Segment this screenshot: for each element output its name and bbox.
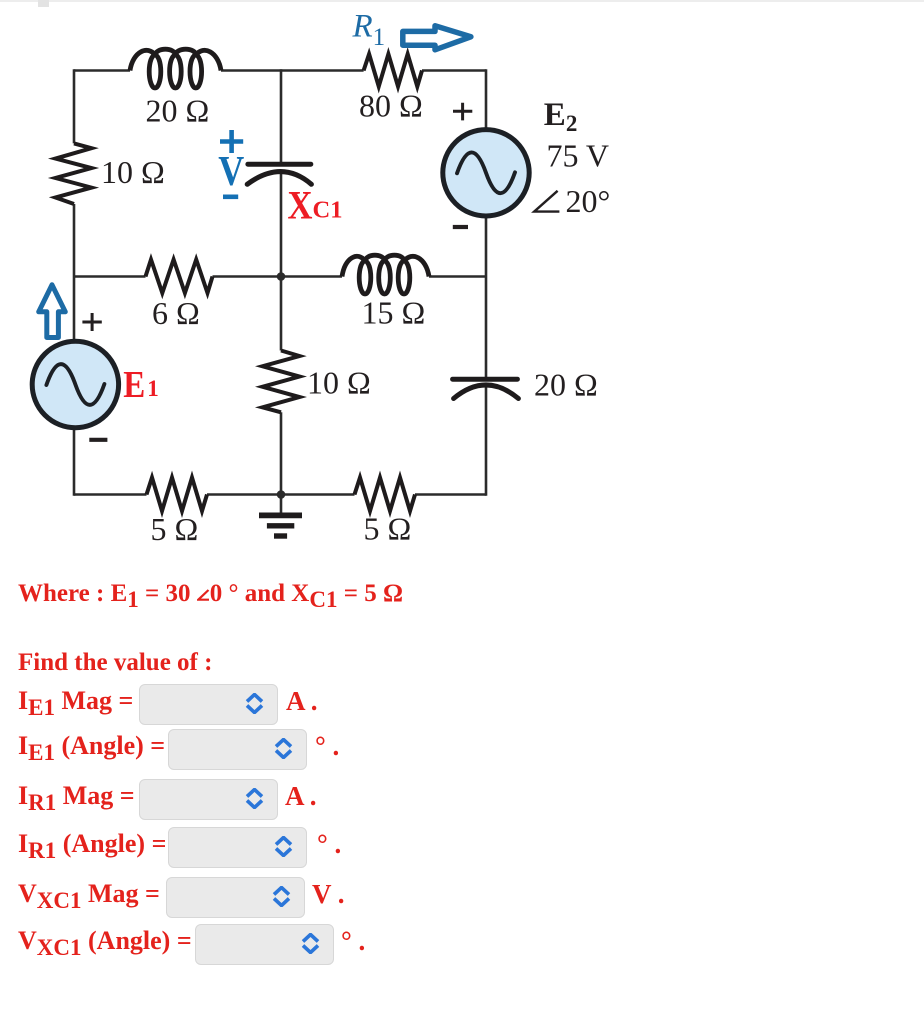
svg-text:10 Ω: 10 Ω <box>307 365 371 401</box>
svg-text:E2: E2 <box>544 97 578 136</box>
svg-text:V: V <box>218 149 244 195</box>
svg-text:20°: 20° <box>566 183 611 219</box>
svg-text:R1: R1 <box>352 9 386 51</box>
svg-text:5 Ω: 5 Ω <box>364 511 412 547</box>
svg-text:20 Ω: 20 Ω <box>146 93 210 129</box>
svg-text:5 Ω: 5 Ω <box>151 511 199 547</box>
svg-text:20 Ω: 20 Ω <box>534 367 598 403</box>
svg-text:XC1: XC1 <box>288 182 343 227</box>
svg-text:10 Ω: 10 Ω <box>101 154 165 190</box>
svg-text:6 Ω: 6 Ω <box>152 295 200 331</box>
svg-text:75 V: 75 V <box>547 138 610 174</box>
svg-text:15 Ω: 15 Ω <box>362 295 426 331</box>
svg-text:E1: E1 <box>123 364 159 406</box>
svg-text:80 Ω: 80 Ω <box>359 88 423 124</box>
